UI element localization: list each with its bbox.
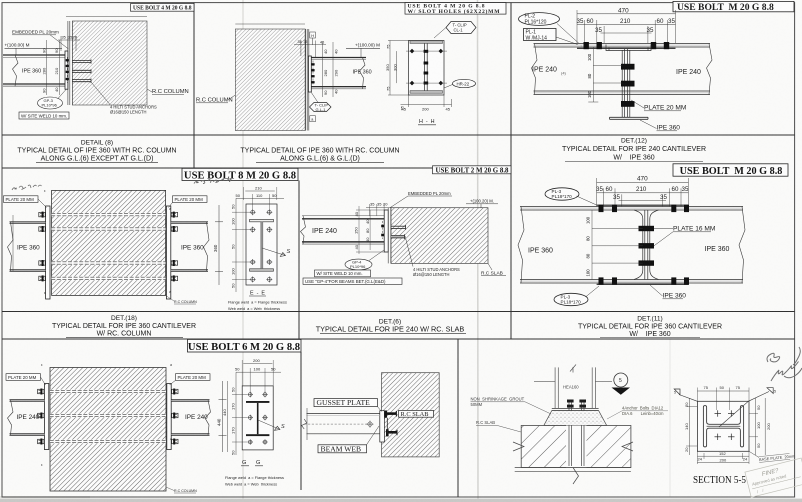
- label R.C SLAB: [476, 420, 521, 432]
- right break arrow: [622, 442, 633, 451]
- TITLES-ROW2: [52, 315, 722, 353]
- vertical dim lines with 90/280/90 and 90/210/40 labels: [42, 40, 60, 95]
- beam break symbols: [518, 207, 524, 284]
- RC column hatch square: [52, 190, 166, 295]
- label EMBEDDED PL 20mm: [12, 30, 69, 50]
- vertical divider panelA/B: [193, 3, 195, 168]
- box PL-1 W/MJ-14: [524, 29, 583, 47]
- box W/ SITE WELD 10 mm: [19, 112, 69, 119]
- PANEL-F : DET.(6) IPE240 w/ RC slab: [301, 191, 507, 285]
- top dim 210 / 50 110 50: [236, 186, 285, 211]
- vertical dim chain 100 80 80 100: [586, 210, 643, 280]
- box W/ SITE WELD 10 mm: [315, 270, 371, 277]
- vertical divider panelB/C: [510, 3, 512, 339]
- label NON SHRINKAGE GROUT: [471, 397, 552, 414]
- vertical divider row3 gusset/baseplate: [457, 339, 459, 497]
- label H - H: [418, 119, 436, 125]
- label BASE PLATE 20mm: [759, 453, 796, 463]
- plate face: [246, 204, 277, 285]
- end plate: [308, 56, 311, 92]
- anchor studs: [72, 59, 91, 82]
- beam break: [301, 216, 306, 245]
- hexagon T- CLIP G.L-1: [310, 92, 332, 112]
- plate face: [242, 386, 273, 450]
- top dim 200 / 50 100 50: [235, 358, 281, 392]
- oval HR-22: [444, 79, 476, 88]
- USE BOLT M 20 G 8.8 header box top-right: [673, 1, 794, 13]
- USE BOLT M 20 G 8.8 header box row2 right: [673, 164, 788, 177]
- end plate: [384, 210, 388, 252]
- vertical dim chain 100 80 100: [561, 47, 622, 102]
- dim 35 35 20 top: [58, 36, 80, 51]
- weld corner marks: [44, 189, 171, 295]
- level line + HEA160: [534, 380, 555, 382]
- bottom dim 45 200 45: [401, 95, 452, 112]
- row1/row2 divider line: [2, 167, 511, 169]
- label R.C COLUMN: [196, 95, 235, 104]
- top flange bolts: [599, 205, 690, 212]
- left dim chain 50 100 50 100 50: [231, 198, 251, 292]
- oval PL-2 PL16*120: [519, 13, 579, 43]
- PANEL-G : DET.(11) IPE360 cantilever w/ IPE360: [518, 175, 745, 305]
- dim chain 35 60 210 60 35: [596, 186, 689, 206]
- grout trapezoid: [544, 411, 607, 426]
- top dim line above column: [66, 16, 147, 18]
- HANDWRITING + STAMP: [12, 179, 802, 497]
- label 4 HILTI STUD ANCHORS: [405, 236, 460, 277]
- bottom scan edge: [0, 499, 802, 502]
- USE BOLT 4 M 20 G 8.8 header box: [131, 4, 195, 12]
- bottom splice plate PL-3: [597, 283, 689, 285]
- level mark +(100.00) M: [346, 43, 380, 58]
- end plates both sides: [46, 206, 50, 299]
- beams IPE360 bottom flange: [520, 280, 743, 284]
- left beam IPE360: [10, 222, 46, 271]
- level mark +(100.20) M: [466, 199, 498, 208]
- left break arrow: [513, 442, 524, 451]
- bolt dashed line: [66, 57, 68, 83]
- bottom IPE360 tee: [610, 117, 649, 119]
- S arrow: [258, 420, 285, 430]
- left dim chains 40 150 40 / 40 80 40: [354, 206, 385, 254]
- web splice plates (black): [621, 64, 635, 107]
- bolt hardware left: [38, 389, 44, 445]
- PANEL-J : gusset plate at RC slab: [302, 373, 440, 457]
- boxed label PLATE 20 MM left: [4, 196, 47, 208]
- bottom break V: [573, 468, 579, 485]
- beams IPE360 top flange: [520, 207, 743, 211]
- title DET.(12): [562, 138, 706, 162]
- RC slab hatch: [391, 208, 488, 264]
- break symbol left: [302, 419, 307, 429]
- top dim line above column: [235, 23, 305, 25]
- dim 470: [577, 8, 676, 43]
- PANEL-H : IPE240 cantilever w/ RC column (6 bolts): [6, 363, 227, 493]
- label PLATE 16 MM: [654, 226, 715, 246]
- right beam IPE240: [171, 400, 209, 436]
- top dim 75 50 75: [697, 385, 749, 410]
- oval PL-3 PL18*170 bottom: [554, 286, 599, 306]
- slab bottom lines: [515, 468, 631, 472]
- weld corner marks: [41, 363, 172, 467]
- pencil note to be 25 m (panel D right): [194, 179, 231, 184]
- row1 title band top line: [2, 134, 795, 136]
- weld notes: [225, 475, 284, 487]
- bolt holes 4 rows x 2: [250, 209, 273, 282]
- web with plates: [424, 43, 429, 90]
- boxed label PLATE 20 MM right: [170, 374, 211, 385]
- hexagon T- CLIP CL-1: [434, 22, 476, 39]
- embedded plate: [388, 208, 391, 264]
- label R.C SLAB: [399, 410, 434, 418]
- central IPE360 column web: [622, 49, 630, 118]
- dim 360 right: [213, 205, 223, 285]
- bottom dims 152 24 24 200: [697, 451, 749, 464]
- title DET.(11): [578, 316, 722, 339]
- vertical divider row3 left/gusset: [300, 352, 302, 490]
- bolt symbols (4): [410, 49, 443, 86]
- section bubble 5: [612, 373, 631, 395]
- PANEL-D : DET.(18) IPE360 cantilever w/ RC column: [4, 189, 224, 304]
- label R.C COLUMN: [166, 487, 197, 493]
- dim 440 right: [217, 381, 227, 452]
- USE BOLT 6 M 20 G 8.8 header box: [188, 339, 302, 352]
- embedded plate vertical lines: [68, 21, 72, 105]
- H section-cut mark top: [310, 32, 316, 45]
- label 4 HILTI STUD ANCHORS: [91, 82, 157, 115]
- cut flag right: [767, 388, 776, 394]
- PANEL-A : DETAIL (8) IPE360 with RC column: [3, 4, 194, 119]
- PANEL-K : column base on RC slab: [471, 365, 669, 485]
- scan fold lines: [242, 0, 244, 502]
- dim 35 35 45 top mirrored: [294, 40, 326, 58]
- label R.C SLAB: [481, 263, 506, 276]
- right beam break: [204, 222, 210, 271]
- left end vertical: [306, 408, 308, 440]
- beam IPE 360 flanges: [311, 58, 366, 89]
- label R.C COLUMN: [166, 295, 198, 304]
- RC slab hatch block: [382, 373, 440, 457]
- PANEL-C : DET.(12) IPE240 cantilever w/ IPE360: [519, 1, 795, 131]
- bolt cross: [367, 421, 374, 428]
- top splice plate PL-3: [597, 204, 689, 206]
- title DET.(6): [316, 319, 466, 334]
- title DET.(18): [52, 315, 196, 338]
- dim 470: [597, 175, 689, 206]
- left dim chain 20 140 20: [684, 398, 697, 455]
- H section-cut mark bottom: [310, 116, 316, 122]
- boxed label PLATE 20 MM right: [169, 196, 208, 208]
- USE BOLT 8 M 20 G 8.8 header box: [182, 168, 298, 181]
- through rods: [39, 390, 178, 444]
- left dim chain 50 170 170 50 + 440: [222, 372, 247, 455]
- top flange slot bar: [410, 41, 443, 44]
- S arrow: [262, 248, 291, 257]
- title middle panel: [240, 148, 399, 163]
- oval PL-3 PL18*170 top: [545, 188, 597, 205]
- bolts 4 M20: [66, 59, 69, 80]
- RC slab hatched: [521, 426, 631, 468]
- web: [257, 403, 259, 434]
- RC column hatch square: [50, 368, 166, 492]
- left beam break: [8, 222, 14, 271]
- section cut diagonals: [679, 392, 769, 428]
- H section rotated: flange slots + web: [703, 406, 743, 447]
- label PLATE 20 MM: [631, 100, 686, 112]
- base plate: [552, 408, 599, 410]
- beam IPE 360 flanges: [3, 55, 65, 86]
- level mark +(100.00) M: [5, 43, 63, 56]
- label BEAM WEB: [318, 426, 379, 453]
- bolts: [311, 63, 314, 83]
- title DETAIL (8): [17, 140, 176, 163]
- dim chain 35 60 210 60 35: [577, 18, 676, 43]
- central IPE360 column top flange: [606, 45, 651, 51]
- base plate square: [697, 401, 749, 451]
- dims 35 35 20: [366, 202, 392, 216]
- gusset bar at wall: [380, 411, 385, 442]
- RC column hatch: [235, 29, 305, 131]
- anchor studs: [391, 225, 406, 239]
- boxed label PLATE 20 MM left: [6, 374, 46, 385]
- label G G: [241, 460, 263, 466]
- beam break symbols: [532, 44, 538, 95]
- bolt hardware left: [39, 212, 45, 282]
- box USE GP-4 FOR BEAMS: [303, 278, 402, 284]
- PANEL-B : IPE360 with RC column (mirrored): [196, 24, 380, 131]
- central IPE360 web: [634, 210, 659, 280]
- vertical dim lines with rotated labels: [323, 42, 339, 97]
- PANEL-HH : section H-H with slot holes: [385, 3, 506, 125]
- beams IPE240 top flange: [534, 44, 711, 48]
- bolt holes 3 rows x 2: [247, 392, 267, 445]
- USE BOLT 2 M 20 G 8.8 header box: [433, 166, 512, 175]
- RC column hatch: [72, 21, 147, 105]
- oval GP-3 PL10*96: [38, 90, 67, 110]
- cut flag left: [674, 389, 680, 395]
- end plates: [44, 384, 48, 450]
- pencil signature bottom-right: [767, 347, 802, 381]
- oval GP-4 PL10*96: [345, 250, 384, 270]
- through rods (white bands + rod lines): [40, 213, 176, 280]
- top splice plate PL-1: [577, 47, 676, 49]
- flange bolts: [584, 42, 670, 49]
- left dim chains 75 300 75: [385, 41, 410, 111]
- left beam IPE240: [10, 400, 45, 436]
- web splice plates (black): [639, 226, 655, 266]
- I-beam flanges: [246, 401, 269, 403]
- row2 title band bottom line: [2, 338, 795, 340]
- label IPE 360 bottom: [640, 120, 680, 132]
- column top break: [570, 365, 576, 373]
- I-beam section: flanges outlined: [250, 219, 274, 221]
- bolt hardware right: [172, 389, 178, 445]
- left small dim line: [12, 215, 14, 271]
- USE BOLT 4 M 20 G 8.8 W/ SLOT HOLES header box: [405, 3, 506, 16]
- column HEA160: [555, 367, 595, 408]
- right beam IPE360: [171, 222, 208, 271]
- end plate face: [409, 41, 445, 96]
- web gray: [261, 222, 263, 269]
- beam break right: [360, 58, 366, 89]
- embedded plate vertical lines: [306, 29, 309, 131]
- PANEL-EE : section E-E bolted end plate: [228, 186, 291, 311]
- PANEL-GG : section G-G bolted end plate: [222, 358, 285, 487]
- faded approval stamp: [745, 458, 802, 497]
- label IPE 360 bottom: [650, 285, 686, 300]
- bottom flange slot bar: [410, 91, 443, 94]
- label R.C COLUMN: [147, 89, 189, 95]
- row2 title band top line: [2, 311, 795, 313]
- label EMBEDDED PL 20mm: [390, 191, 452, 208]
- weld notes: [228, 300, 287, 311]
- beam IPE240 flanges: [302, 216, 384, 245]
- bolt heads / nuts: [567, 400, 586, 408]
- bolt crosses: [715, 410, 735, 440]
- angle clips black: [384, 411, 397, 437]
- beam centerline dashed: [304, 423, 371, 425]
- label GUSSET PLATE: [314, 398, 382, 411]
- label E - E: [249, 291, 266, 297]
- beam break symbol: [13, 55, 19, 86]
- TITLES-ROW1: [17, 138, 788, 182]
- bolt dashed line + bolts: [382, 221, 384, 239]
- bolt dashed line: [312, 61, 314, 86]
- label 4 Anchor Bolts: [607, 406, 668, 419]
- end plate: [65, 51, 68, 89]
- anchor bolt rods: [569, 400, 584, 466]
- vertical divider row2 E-E / DET6: [298, 181, 300, 340]
- bolt hardware right: [171, 212, 177, 282]
- beam lines: [307, 414, 380, 434]
- right dim chain 50 100 50 / 200: [749, 398, 771, 455]
- pencil note to 25mm (panel D left): [12, 185, 42, 190]
- PANEL-L : SECTION 5-5 base plate plan: [674, 385, 796, 486]
- bottom flange bolts: [599, 277, 690, 284]
- beams IPE240 bottom flange: [534, 91, 711, 95]
